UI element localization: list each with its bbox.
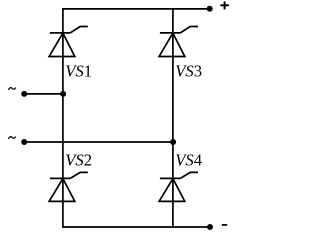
+ polarity sign [220, 1, 229, 9]
thyristor VS3 [159, 27, 198, 57]
AC source symbol ~ (input 2) [8, 137, 15, 139]
thyristor VS1 [49, 27, 88, 57]
thyristor VS4 [159, 172, 198, 201]
node AC1 terminal dot [21, 91, 27, 97]
svg-text:VS2: VS2 [65, 150, 92, 169]
wire bottom rail to - [63, 226, 210, 228]
wire AC input 2 [24, 141, 173, 143]
node - terminal dot [207, 224, 213, 230]
svg-text:VS1: VS1 [65, 62, 92, 81]
- polarity sign [222, 224, 227, 226]
node AC1 junction on left rail [60, 91, 66, 97]
thyristor VS2 [49, 172, 88, 201]
node AC2 junction on right rail [170, 139, 176, 145]
wire left rail [62, 8, 64, 228]
wire right rail [172, 9, 174, 227]
node AC2 terminal dot [21, 139, 27, 145]
svg-text:VS4: VS4 [175, 150, 203, 169]
AC source symbol ~ (input 1) [8, 88, 15, 90]
node + terminal dot [207, 6, 213, 12]
wire AC input 1 [24, 93, 63, 95]
svg-text:VS3: VS3 [175, 62, 202, 81]
wire top rail to + [63, 8, 210, 10]
